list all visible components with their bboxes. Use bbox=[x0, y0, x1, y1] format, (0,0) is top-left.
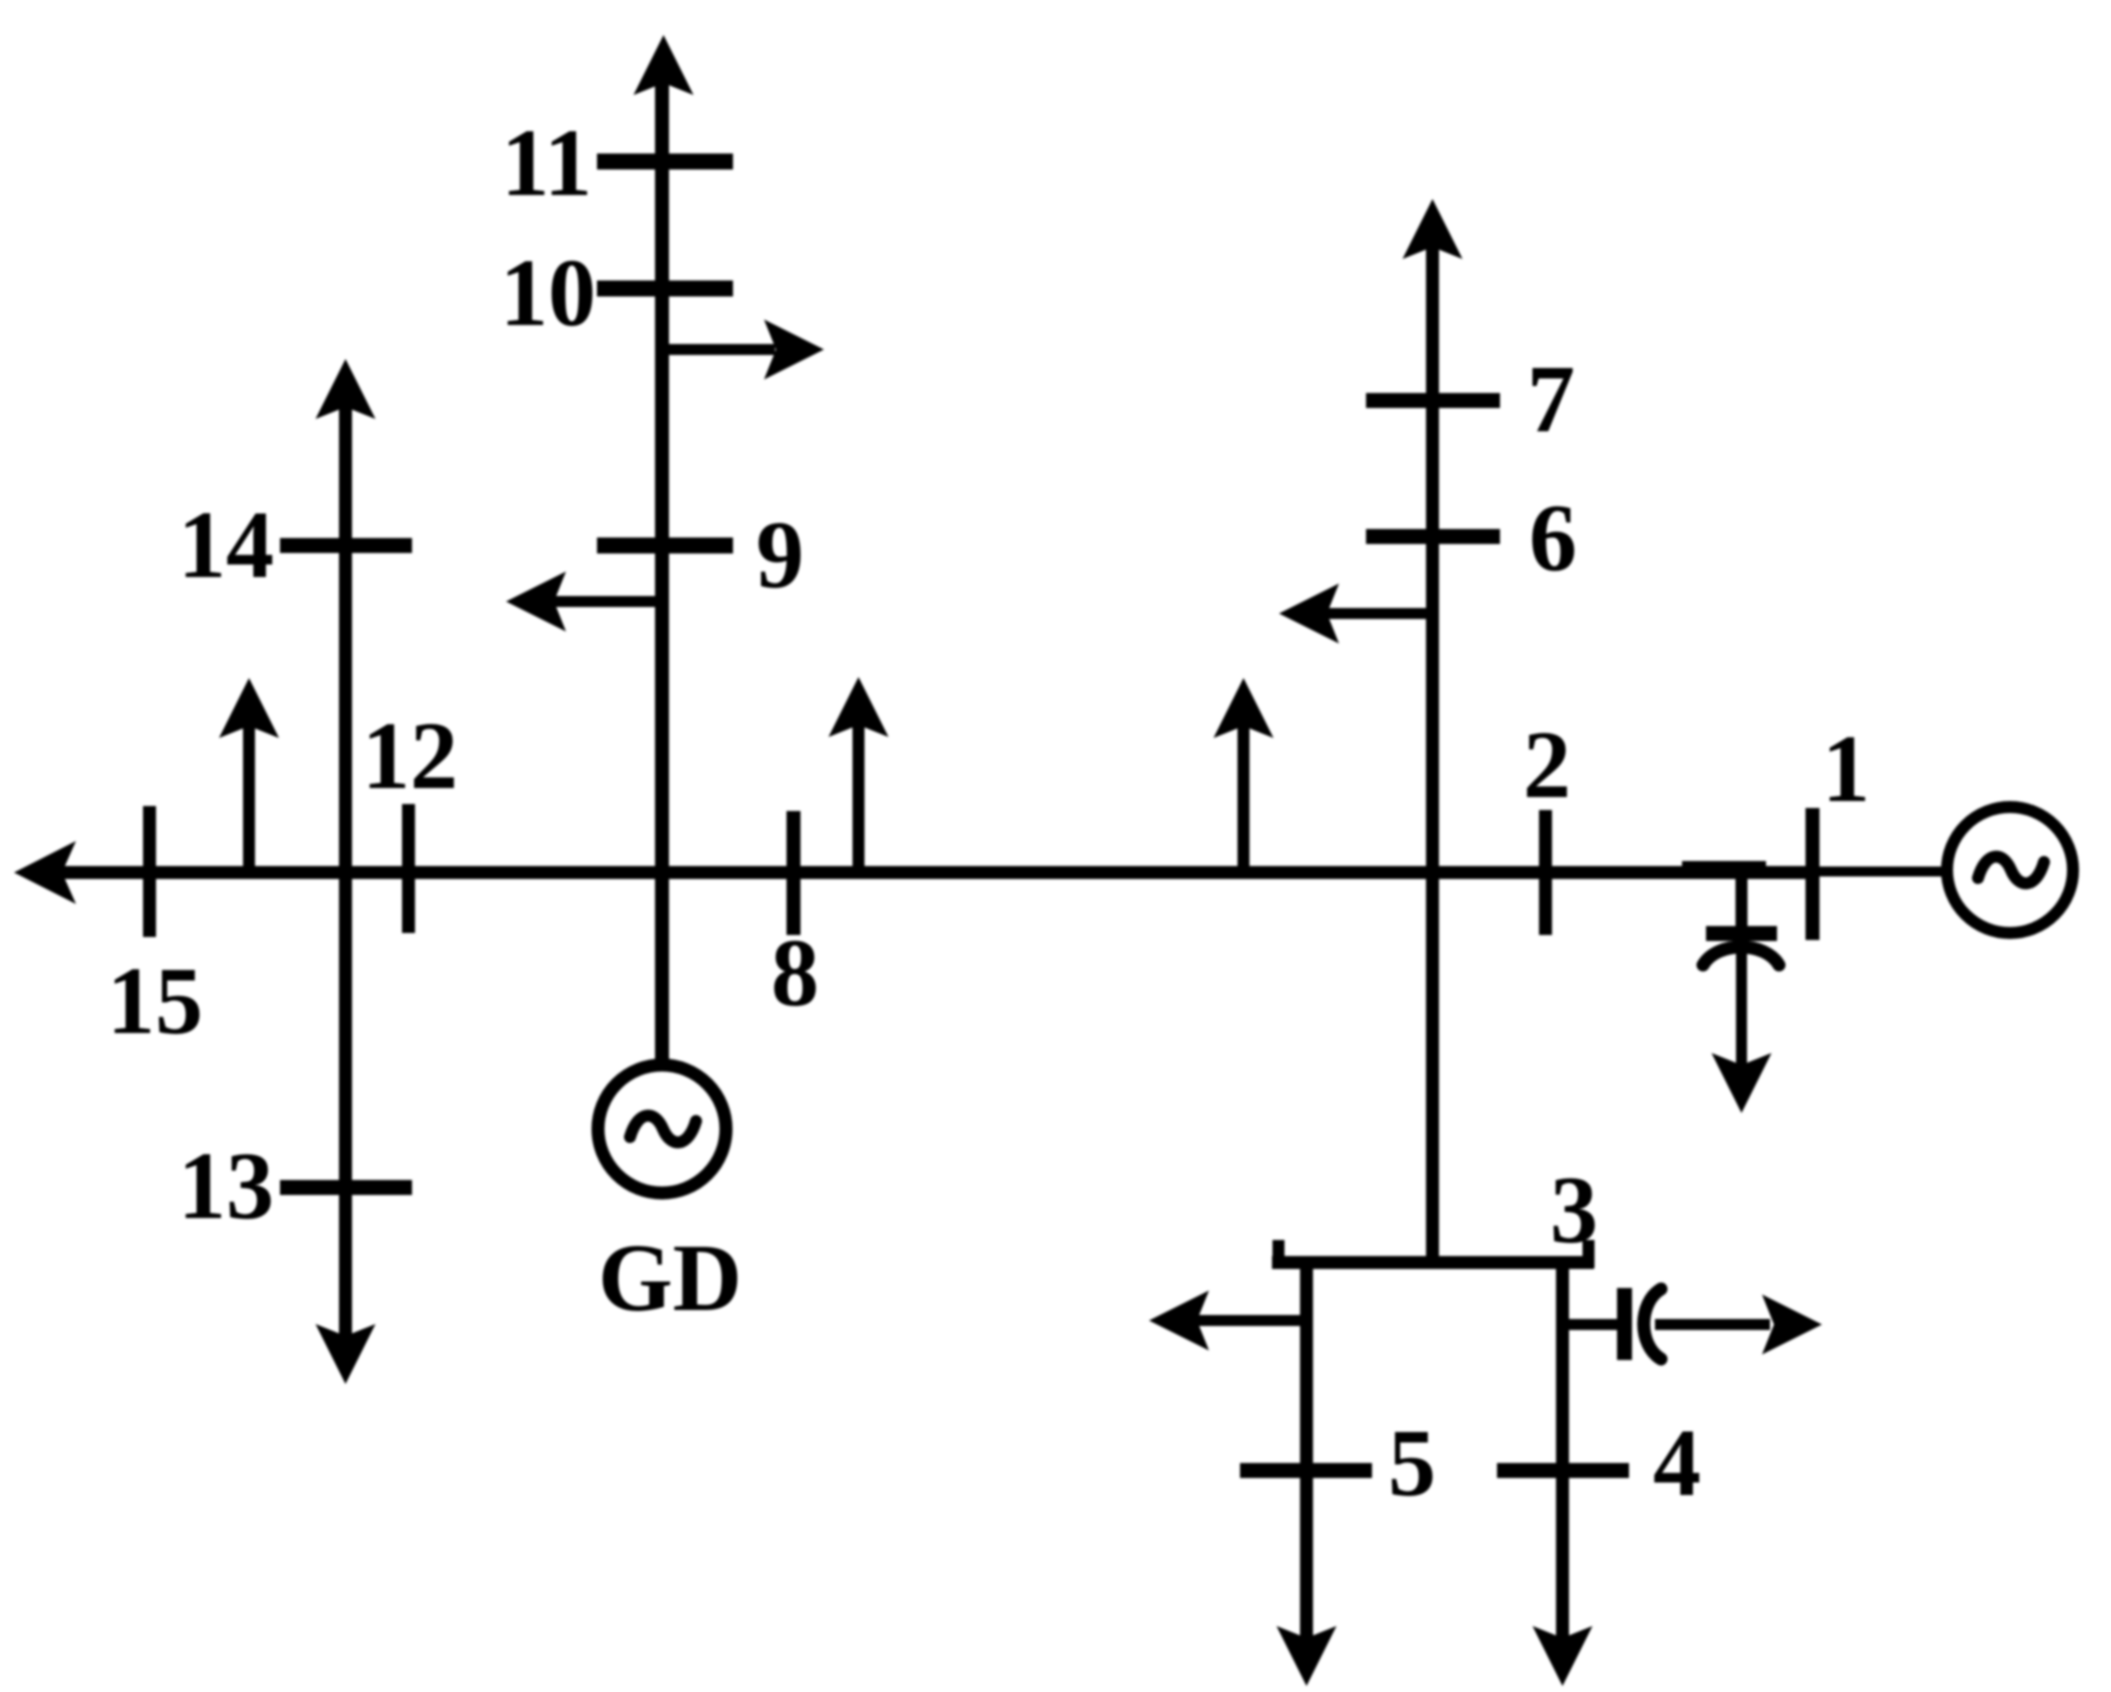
capacitor curved plate on bus4 branch bbox=[1644, 1289, 1661, 1359]
capacitor on bus4 branch wire to plate bbox=[1562, 1319, 1617, 1330]
svg-text:GD: GD bbox=[598, 1224, 742, 1331]
arrow load up on main line left of center bbox=[853, 722, 865, 872]
svg-text:10: 10 bbox=[500, 239, 596, 346]
generator GD circle bbox=[598, 1065, 726, 1193]
wire vertical branch through buses 11 10 9 down to GD bbox=[655, 75, 669, 1059]
arrow up at top of 6-7 branch bbox=[1403, 199, 1463, 259]
arrow up at top of 9-10-11 branch bbox=[634, 35, 694, 95]
svg-text:12: 12 bbox=[362, 702, 458, 809]
node bus 14 tick bbox=[280, 538, 412, 553]
arrow load up near bus 15 bbox=[243, 722, 255, 872]
node bus 12 tick bbox=[402, 804, 415, 933]
arrow down below capacitor at bus 1 bbox=[1712, 1053, 1772, 1113]
generator GD tilde bbox=[630, 1116, 696, 1143]
svg-text:9: 9 bbox=[756, 501, 804, 608]
node bus 15 tick bbox=[143, 806, 156, 937]
node bus 10 tick bbox=[597, 281, 733, 297]
node bus 3 bar bbox=[1272, 1256, 1594, 1269]
svg-text:11: 11 bbox=[501, 109, 592, 216]
node bus 9 tick bbox=[597, 538, 733, 554]
svg-text:8: 8 bbox=[771, 919, 819, 1026]
wire branch bus3 to bus 4 bbox=[1556, 1262, 1569, 1640]
capacitor flat plate on bus4 branch bbox=[1617, 1288, 1632, 1360]
arrow load left on bus5 branch bbox=[1195, 1315, 1306, 1326]
svg-text:1: 1 bbox=[1822, 715, 1870, 822]
node bus 8 tick bbox=[787, 811, 801, 935]
svg-text:5: 5 bbox=[1388, 1409, 1436, 1516]
arrow down at bottom of bus4 branch bbox=[1533, 1626, 1593, 1686]
arrow up at top of 14-13 branch bbox=[316, 359, 376, 419]
capacitor at bus 1 flat plate bbox=[1706, 926, 1777, 941]
node bus 3 left end stub bbox=[1273, 1240, 1285, 1268]
arrow load left below bus 9 bbox=[552, 596, 663, 607]
node bus 1 tick bbox=[1806, 808, 1820, 940]
wire doubled jog segment near bus 1 bbox=[1682, 861, 1766, 876]
arrow left end of main feeder bbox=[14, 841, 76, 904]
arrow load right from capacitor on bus4 branch bbox=[1655, 1319, 1770, 1330]
capacitor at bus 1 stub bbox=[1736, 875, 1748, 928]
node bus 4 tick bbox=[1497, 1463, 1629, 1478]
svg-text:15: 15 bbox=[107, 947, 203, 1054]
svg-text:7: 7 bbox=[1527, 345, 1575, 452]
generator 1 tilde bbox=[1978, 857, 2044, 884]
svg-text:13: 13 bbox=[178, 1132, 274, 1239]
node bus 11 tick bbox=[597, 154, 733, 170]
node bus 3 right end stub bbox=[1583, 1240, 1595, 1268]
arrow down at bottom of bus5 branch bbox=[1277, 1626, 1337, 1686]
arrow load left below bus 6 bbox=[1325, 608, 1432, 619]
arrow load up on main line right of center bbox=[1238, 723, 1250, 872]
svg-text:3: 3 bbox=[1550, 1156, 1598, 1263]
node bus 2 tick bbox=[1539, 810, 1552, 935]
svg-text:4: 4 bbox=[1653, 1409, 1701, 1516]
node bus 7 tick bbox=[1366, 393, 1500, 408]
wire vertical branch through buses 14 13 bbox=[339, 406, 352, 1338]
capacitor at bus 1 curved plate bbox=[1703, 947, 1779, 965]
wire vertical branch through buses 7 6 down to bus 3 bbox=[1426, 240, 1439, 1262]
node bus 13 tick bbox=[280, 1180, 412, 1195]
node bus 6 tick bbox=[1366, 529, 1500, 544]
svg-text:2: 2 bbox=[1523, 711, 1571, 818]
wire main feeder bus line bbox=[58, 866, 1818, 879]
generator 1 circle bbox=[1947, 807, 2073, 933]
svg-text:14: 14 bbox=[178, 491, 274, 598]
arrow down at bottom of 14-13 branch bbox=[316, 1324, 376, 1384]
svg-text:6: 6 bbox=[1529, 484, 1577, 591]
node bus 5 tick bbox=[1240, 1463, 1372, 1478]
wire below capacitor at bus 1 bbox=[1736, 952, 1747, 1066]
wire branch bus3 to bus 5 bbox=[1300, 1262, 1313, 1640]
arrow load right below bus 10 bbox=[663, 344, 775, 355]
wire segment to generator 1 bbox=[1818, 867, 1947, 877]
